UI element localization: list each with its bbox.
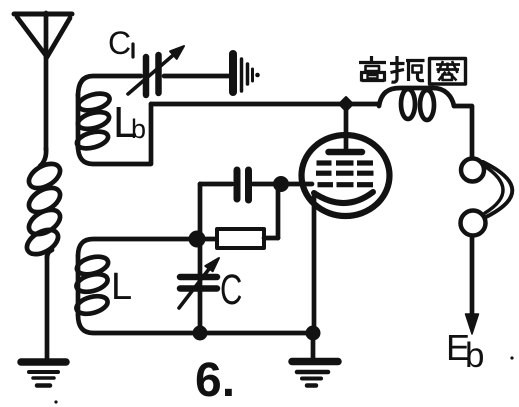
svg-text:C: C [108, 25, 131, 61]
svg-text:6.: 6. [195, 354, 235, 407]
svg-text:L: L [111, 266, 132, 308]
svg-text:C: C [220, 265, 242, 313]
svg-text:b: b [465, 336, 484, 375]
svg-text:b: b [131, 114, 146, 144]
